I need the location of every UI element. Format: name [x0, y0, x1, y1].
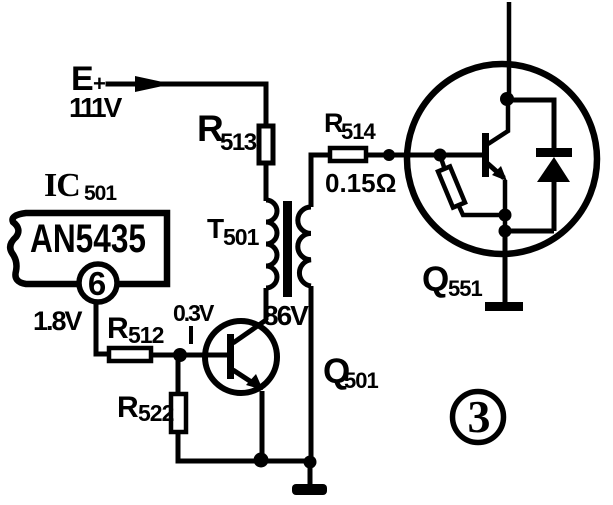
svg-text:IC: IC	[44, 167, 80, 204]
wire T501 primary bottom to Q501 collector	[264, 288, 269, 320]
transistor Q501 base bar	[227, 334, 234, 379]
svg-text:1.8V: 1.8V	[33, 306, 83, 336]
resistor R512 body	[109, 348, 151, 361]
transistor Q551 emitter stroke with arrow	[487, 163, 507, 215]
transistor Q501 collector stroke	[233, 320, 266, 343]
svg-text:6: 6	[88, 265, 106, 302]
internal base resistor of Q551	[438, 155, 505, 215]
resistor R514 body	[330, 148, 366, 161]
wire R513 to T501 primary	[264, 163, 269, 201]
ground for Q551 emitter	[485, 302, 523, 311]
IC501 label	[44, 167, 117, 205]
junction dot emitter-diode node	[499, 225, 512, 238]
junction dot rail to ground	[304, 456, 317, 469]
wire R522 to bottom rail	[178, 432, 311, 461]
svg-text:501: 501	[223, 224, 260, 250]
svg-text:3: 3	[468, 391, 491, 442]
schematic note circled 3	[453, 391, 504, 443]
wire T501 secondary bottom to rail	[309, 286, 314, 462]
svg-text:R: R	[117, 391, 139, 424]
resistor R514 label	[324, 108, 376, 144]
resistor R522 body	[171, 394, 186, 432]
wire base node down to R522	[176, 355, 181, 395]
junction dot Q551 base node	[434, 149, 447, 162]
wire pin 6 to R512	[96, 301, 109, 354]
transformer T501 core bar	[283, 201, 292, 297]
arrowhead on E+ feed wire	[135, 76, 172, 92]
svg-text:501: 501	[84, 182, 117, 205]
junction dot Q501 emitter at rail	[254, 453, 269, 468]
transformer T501 label	[207, 213, 260, 250]
svg-text:0.15Ω: 0.15Ω	[325, 168, 396, 198]
transistor Q551 collector stroke	[488, 100, 508, 144]
svg-text:512: 512	[128, 322, 164, 348]
wire Q551 collector top lead	[507, 2, 512, 100]
wire E+ feed to R513 corner	[108, 84, 266, 126]
transistor Q501 emitter stroke with arrow	[233, 370, 263, 460]
wire Q551 emitter to ground	[503, 231, 508, 303]
transformer T501 secondary winding	[298, 207, 311, 286]
svg-text:551: 551	[448, 276, 482, 301]
svg-text:R: R	[107, 312, 129, 345]
transistor Q501 label	[323, 352, 378, 393]
resistor R522 label	[117, 391, 174, 426]
label 0.3V with pointer tick	[173, 300, 215, 344]
junction dot Q551 collector node	[500, 92, 514, 106]
main ground bar	[292, 484, 327, 495]
wire rail to main ground	[308, 462, 313, 486]
junction dot Q501 base node	[173, 348, 187, 362]
transistor Q551 package circle	[407, 64, 597, 254]
transformer T501 primary winding	[266, 200, 277, 288]
wire T501 secondary top to R514 node	[311, 155, 330, 207]
svg-text:501: 501	[344, 368, 378, 393]
svg-text:T: T	[207, 213, 224, 244]
svg-text:513: 513	[220, 129, 257, 156]
svg-text:86V: 86V	[263, 300, 309, 331]
transistor Q501 package circle	[205, 321, 277, 393]
resistor R513 label	[197, 108, 257, 156]
resistor R513 body	[259, 126, 273, 163]
node E+ supply label 111V	[69, 60, 123, 123]
svg-text:AN5435: AN5435	[30, 217, 146, 261]
wire R514 to Q551 base	[366, 153, 483, 158]
svg-text:0.3V: 0.3V	[173, 300, 215, 326]
transistor Q551 label	[422, 260, 482, 301]
svg-text:522: 522	[138, 400, 174, 426]
damper diode inside Q551	[536, 148, 572, 231]
transistor Q551 base bar	[482, 133, 489, 177]
resistor R512 label	[107, 312, 164, 348]
wire diode anode to emitter node	[505, 229, 554, 234]
svg-text:111V: 111V	[69, 92, 123, 123]
svg-text:Q: Q	[422, 260, 449, 299]
wire R512 to Q501 base	[151, 353, 227, 358]
junction dot Q551 emitter node	[499, 209, 512, 232]
svg-text:514: 514	[341, 119, 376, 144]
IC U501 package box	[10, 213, 167, 284]
junction dot after R514	[383, 149, 395, 161]
pin 6 bubble	[79, 264, 117, 302]
wire collector node to damper diode cathode	[507, 100, 554, 148]
